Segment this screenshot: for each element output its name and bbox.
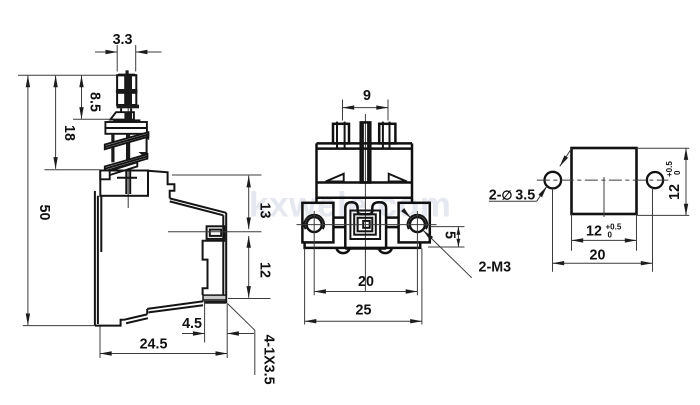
svg-text:20: 20	[358, 274, 374, 290]
svg-text:25: 25	[356, 303, 372, 319]
svg-text:18: 18	[61, 125, 77, 141]
svg-text:50: 50	[36, 205, 52, 221]
svg-text:2-M3: 2-M3	[479, 260, 512, 276]
svg-text:8.5: 8.5	[87, 92, 103, 112]
svg-text:4-1X3.5: 4-1X3.5	[261, 334, 277, 384]
svg-text:12: 12	[667, 184, 683, 200]
svg-text:12: 12	[586, 224, 602, 240]
svg-text:3.3: 3.3	[113, 32, 133, 48]
svg-text:13: 13	[257, 203, 273, 219]
svg-text:4.5: 4.5	[182, 316, 202, 332]
svg-text:12: 12	[257, 262, 273, 278]
svg-text:24.5: 24.5	[140, 337, 168, 353]
svg-text:20: 20	[590, 248, 606, 264]
svg-text:9: 9	[363, 88, 371, 104]
svg-text:5: 5	[442, 231, 458, 239]
svg-text:0: 0	[608, 231, 613, 240]
svg-text:0: 0	[673, 170, 682, 175]
